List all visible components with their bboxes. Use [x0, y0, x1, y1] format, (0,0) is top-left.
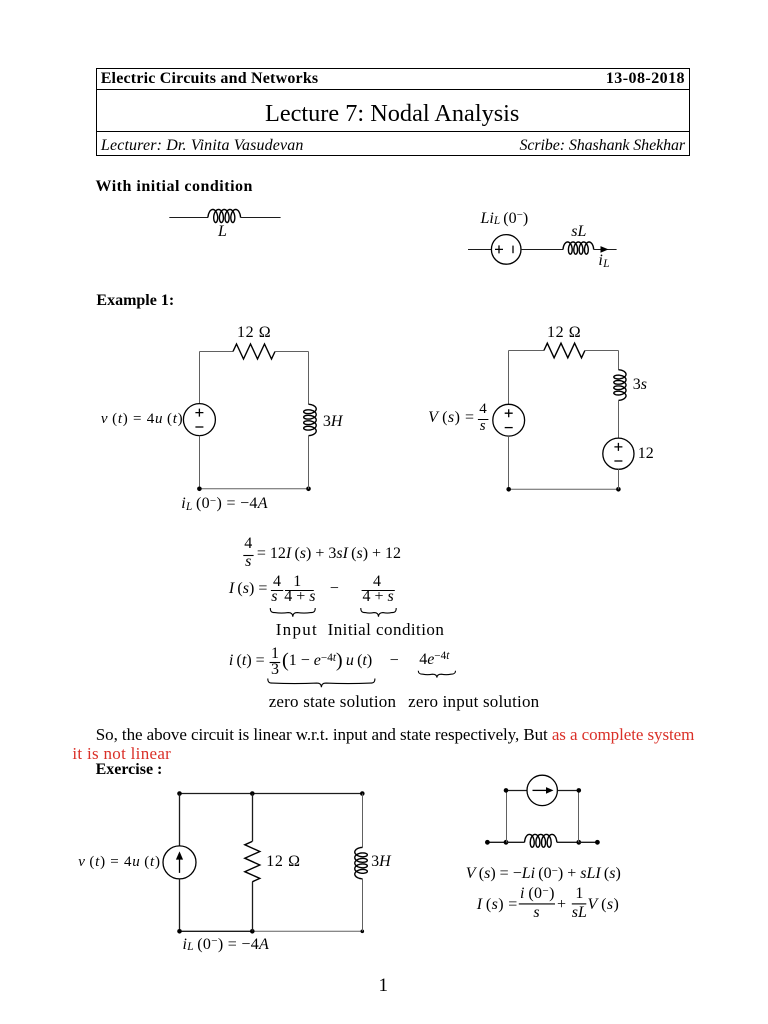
wire bottom to inductor (fig2) — [506, 841, 525, 843]
inductor sL — [563, 242, 594, 254]
wire right branch upper (exercise) — [362, 794, 364, 848]
inductor L — [208, 210, 241, 223]
node top middle (exercise) — [250, 791, 255, 796]
arrowhead iL — [601, 246, 609, 253]
eq2 fraction bars — [271, 590, 314, 592]
wire source to bottom (right circuit) — [618, 469, 620, 489]
wire left lead of source — [468, 249, 491, 251]
wire top left to resistor — [200, 351, 234, 353]
wire bottom (right circuit) — [509, 488, 619, 490]
node bottom left (exercise) — [177, 929, 182, 934]
wire right branch top (right circuit) — [618, 351, 620, 370]
eq1 fraction bar — [243, 555, 253, 557]
underbrace zero input — [418, 671, 455, 678]
wire middle branch upper (exercise) — [252, 794, 254, 842]
voltage source v(t) — [183, 404, 215, 436]
resistor 12ohm (right circuit) — [544, 343, 585, 358]
inductor L (fig2) — [525, 834, 557, 847]
wire top left to resistor (right circuit) — [509, 350, 544, 352]
wire bottom right half (exercise) — [252, 930, 362, 932]
resistor 12ohm — [233, 344, 275, 359]
wire top left (fig2) — [506, 790, 527, 792]
underbrace initial condition — [361, 608, 396, 617]
frac bar 1/sL — [572, 903, 587, 905]
underbrace zero state — [268, 679, 375, 688]
eq3 fraction bar — [270, 662, 281, 664]
wire right branch lower (exercise) — [362, 879, 364, 932]
resistor 12ohm (exercise) — [245, 841, 260, 881]
node bottom middle (exercise) — [250, 929, 255, 934]
wire right lead with current arrow iL — [594, 249, 617, 251]
voltage source 12 — [603, 438, 634, 469]
wire middle branch lower (exercise) — [252, 882, 254, 932]
node bottom right (right circuit) — [616, 487, 621, 492]
inductor 3H (exercise) — [355, 847, 368, 878]
node bottom left — [197, 487, 202, 492]
eq2 fraction bar 2 — [362, 590, 395, 592]
node bottom right (exercise) — [361, 930, 365, 934]
node bottom left junction (fig2) — [504, 840, 509, 845]
header box frame — [97, 69, 690, 156]
current source v(t) — [163, 846, 196, 879]
wire between source and inductor sL — [521, 249, 563, 251]
voltage source V(s) — [493, 404, 525, 436]
current source (fig2) — [527, 775, 557, 805]
inductor 3H — [304, 404, 317, 435]
node top left (exercise) — [177, 791, 182, 796]
wire left branch upper (right circuit) — [508, 351, 510, 405]
wire inductor to source (right circuit) — [618, 400, 620, 438]
wire left branch upper — [199, 352, 201, 404]
wire bottom stub left (fig2) — [487, 841, 506, 843]
wire left branch upper (exercise) — [179, 794, 181, 846]
wire right vertical (fig2) — [578, 790, 580, 842]
wire right branch upper — [308, 352, 310, 405]
wire bottom — [200, 488, 309, 490]
node bottom right junction (fig2) — [576, 840, 581, 845]
wire bottom left half (exercise) — [180, 930, 253, 932]
wire left branch lower — [199, 436, 201, 489]
wire left vertical (fig2) — [506, 790, 508, 842]
fraction bar V(s)=4/s — [478, 419, 489, 421]
wire bottom stub right (fig2) — [579, 841, 598, 843]
wire right branch lower — [308, 436, 310, 489]
inductor 3s — [614, 370, 626, 401]
wire left branch lower (right circuit) — [508, 436, 510, 489]
wire left lead of inductor L — [169, 217, 208, 219]
node bottom left (right circuit) — [506, 487, 511, 492]
node stub right end (fig2) — [595, 840, 600, 845]
frac bar i(0-)/s — [519, 903, 555, 905]
wire resistor to top right (right circuit) — [585, 350, 619, 352]
node top right (exercise) — [360, 791, 365, 796]
underbrace input — [270, 608, 315, 617]
wire top right (fig2) — [557, 790, 578, 792]
voltage source LiL(0-) — [491, 235, 521, 265]
wire top (exercise) — [180, 793, 363, 795]
node top left (fig2) — [504, 788, 509, 793]
wire left branch lower (exercise) — [179, 879, 181, 931]
wire right lead of inductor L — [241, 217, 281, 219]
wire resistor to top right — [275, 351, 309, 353]
wire inductor to junction (fig2) — [557, 841, 579, 843]
node bottom right — [306, 487, 311, 492]
node top right (fig2) — [577, 788, 582, 793]
node stub left end (fig2) — [485, 840, 490, 845]
